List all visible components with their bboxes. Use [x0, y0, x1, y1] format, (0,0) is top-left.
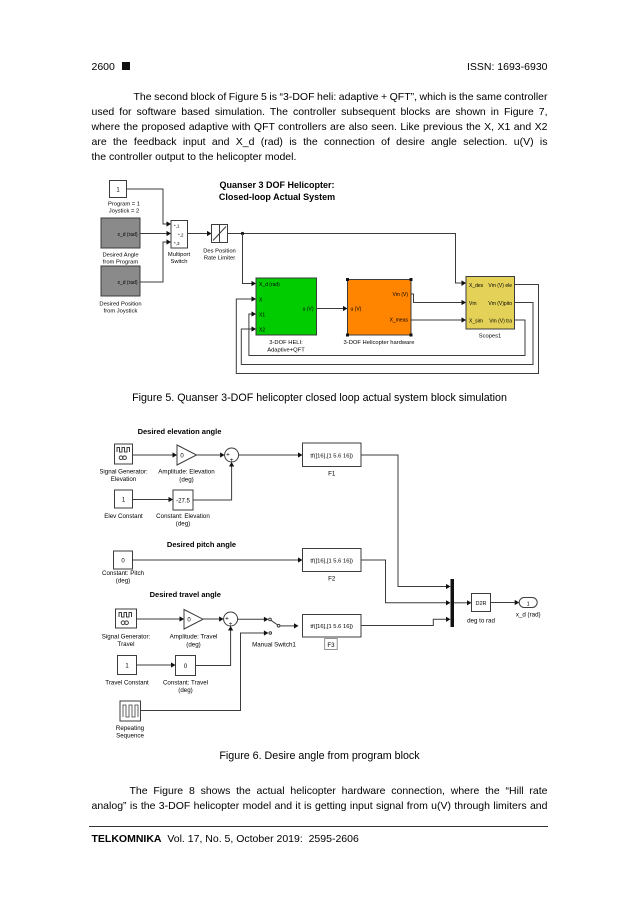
sum junction travel — [224, 612, 238, 628]
svg-text:deg to rad: deg to rad — [467, 618, 495, 625]
svg-text:3-DOF Helicopter hardware: 3-DOF Helicopter hardware — [344, 340, 415, 346]
sum junction elevation — [225, 448, 239, 464]
wire F3 to mux in3 — [361, 617, 451, 626]
svg-text:x_d (rad): x_d (rad) — [117, 232, 137, 238]
outport x_d (rad) — [516, 598, 541, 619]
svg-text:Vm (V)pito: Vm (V)pito — [488, 301, 512, 307]
svg-text:D2R: D2R — [475, 601, 486, 607]
svg-text:Vm: Vm — [469, 301, 477, 307]
wire travel constant to 0 — [137, 662, 176, 667]
gain D2R deg to rad — [467, 594, 495, 625]
feedback wire pito to X2 — [241, 303, 533, 365]
svg-text:Amplitude: Travel: Amplitude: Travel — [170, 634, 218, 641]
wire gray2 to multiport in3 — [140, 239, 171, 282]
svg-text:F2: F2 — [328, 576, 336, 583]
svg-text:(deg): (deg) — [179, 477, 193, 484]
figure 5: simulink diagram — [85, 170, 565, 395]
junction and branch wire to green x_d — [241, 232, 256, 286]
wire repeating sequence to switch lower — [141, 630, 269, 710]
svg-text:tf([16],[1 5.6 16]): tf([16],[1 5.6 16]) — [310, 624, 353, 630]
svg-text:F3: F3 — [327, 642, 335, 649]
footer — [92, 833, 359, 845]
svg-text:Signal Generator:: Signal Generator: — [102, 634, 151, 641]
svg-text:Elev Constant: Elev Constant — [104, 513, 143, 520]
svg-text:-27.5: -27.5 — [176, 499, 190, 505]
svg-text:Travel Constant: Travel Constant — [105, 680, 149, 687]
svg-text:Vm (V) ele: Vm (V) ele — [488, 283, 512, 289]
wire elev constant to -27.5 — [133, 497, 174, 502]
svg-text:X_d (rad): X_d (rad) — [259, 282, 280, 288]
subsystem 3-DOF HELI Adaptive+QFT — [256, 278, 317, 354]
svg-text:Constant: Travel: Constant: Travel — [163, 680, 208, 687]
footer rule — [89, 826, 549, 827]
svg-text:Sequence: Sequence — [116, 733, 144, 740]
svg-text:*,1: *,1 — [174, 224, 180, 229]
svg-text:Switch: Switch — [170, 259, 187, 265]
scope subsystem Scopes1 — [466, 277, 515, 340]
wire orange X_meas to scope X_sim — [411, 317, 466, 322]
wire constant1 to multiport in1 — [127, 189, 172, 227]
svg-text:Adaptive+QFT: Adaptive+QFT — [267, 348, 305, 354]
block Constant: Elevation -27.5 — [156, 490, 210, 528]
wire siggen elevation to gain — [133, 452, 178, 457]
svg-text:X_sim: X_sim — [469, 319, 483, 325]
svg-text:u (V): u (V) — [351, 307, 362, 313]
gain Amplitude: Travel — [170, 610, 218, 649]
svg-text:Des Position: Des Position — [203, 249, 236, 255]
wire multiport to rate limiter — [188, 231, 212, 236]
wire F2 to mux in2 — [361, 560, 451, 605]
paragraph 1 — [92, 90, 548, 165]
wire orange Vm to scope Vm — [411, 294, 466, 305]
svg-text:X1: X1 — [259, 313, 265, 319]
svg-text:*,3: *,3 — [174, 241, 180, 246]
svg-text:Vm (V) tra: Vm (V) tra — [489, 319, 512, 325]
svg-text:Travel: Travel — [118, 641, 135, 648]
svg-text:from Program: from Program — [103, 260, 139, 266]
svg-text:x_d (rad): x_d (rad) — [516, 612, 541, 619]
feedback wire tra to X1 — [249, 311, 525, 355]
svg-text:Vm (V): Vm (V) — [392, 292, 408, 298]
block Desired Angle from Program — [101, 218, 140, 266]
constant Travel Constant — [105, 656, 149, 687]
constant pitch 0 — [102, 551, 145, 585]
svg-text:Quanser 3 DOF Helicopter:: Quanser 3 DOF Helicopter: — [219, 180, 334, 190]
svg-text:X2: X2 — [259, 328, 265, 334]
svg-text:F1: F1 — [328, 471, 336, 478]
wire sum to switch upper — [238, 617, 269, 622]
subsystem 3-DOF Helicopter hardware — [344, 278, 415, 346]
svg-text:tf([16],[1 5.6 16]): tf([16],[1 5.6 16]) — [310, 559, 353, 565]
wire 0 up into sum travel — [196, 626, 234, 666]
wire F1 to mux in1 — [361, 455, 451, 589]
wire -27.5 up into sum — [193, 462, 234, 500]
svg-text:Constant: Elevation: Constant: Elevation — [156, 513, 210, 520]
wire rate limiter to scope X_des — [228, 234, 467, 287]
svg-text:Elevation: Elevation — [111, 476, 137, 483]
header — [92, 61, 548, 73]
svg-text:from Joystick: from Joystick — [104, 309, 138, 315]
svg-text:Repeating: Repeating — [116, 725, 145, 732]
svg-text:Desired travel angle: Desired travel angle — [150, 590, 221, 599]
wire gen travel to gain — [137, 616, 185, 621]
svg-text:Manual Switch1: Manual Switch1 — [252, 642, 296, 649]
svg-text:Rate Limiter: Rate Limiter — [204, 256, 235, 262]
block Constant: Travel 0 — [163, 656, 208, 695]
svg-text:Joystick = 2: Joystick = 2 — [109, 209, 139, 215]
svg-text:Desired Position: Desired Position — [99, 302, 141, 308]
svg-text:u (V): u (V) — [303, 307, 314, 313]
svg-text:Signal Generator:: Signal Generator: — [100, 469, 148, 476]
svg-text:(deg): (deg) — [186, 642, 200, 649]
svg-text:(deg): (deg) — [116, 578, 130, 585]
gain Amplitude: Elevation — [158, 445, 215, 484]
svg-text:X_des: X_des — [469, 283, 484, 289]
wire gray1 to multiport in2 — [140, 231, 171, 236]
paragraph 2 — [92, 784, 548, 814]
svg-text:Multiport: Multiport — [168, 252, 191, 258]
multiport switch — [168, 221, 191, 266]
transfer fcn F1 — [303, 443, 362, 478]
wire gain to sum — [197, 452, 225, 457]
signal generator travel — [102, 609, 151, 648]
wire mux to D2R — [454, 600, 472, 605]
block Desired Position from Joystick — [99, 266, 141, 315]
svg-text:3-DOF HELI:: 3-DOF HELI: — [269, 340, 303, 346]
wire gain to sum travel — [203, 616, 224, 621]
svg-text:Desired pitch angle: Desired pitch angle — [167, 540, 236, 549]
manual switch 1 — [252, 618, 298, 648]
svg-text:Closed-loop Actual System: Closed-loop Actual System — [219, 192, 335, 202]
repeating sequence — [116, 701, 145, 740]
mux — [451, 579, 455, 627]
figure 6 caption — [92, 750, 548, 762]
constant Elev Constant — [104, 490, 143, 520]
figure 6: simulink diagram — [100, 420, 560, 750]
svg-text:Program = 1: Program = 1 — [108, 202, 140, 208]
figure 5 caption — [92, 392, 548, 404]
svg-text:Amplitude: Elevation: Amplitude: Elevation — [158, 469, 215, 476]
feedback wire ele to X — [236, 285, 538, 374]
transfer fcn F3 — [303, 615, 362, 650]
wire sum to F1 — [239, 452, 303, 457]
svg-text:Desired elevation angle: Desired elevation angle — [138, 427, 222, 436]
svg-text:(deg): (deg) — [176, 521, 190, 528]
rate limiter block — [203, 225, 236, 262]
svg-text:Scopes1: Scopes1 — [479, 334, 502, 340]
transfer fcn F2 — [303, 549, 362, 583]
signal generator elevation — [99, 444, 148, 483]
svg-text:X_meas: X_meas — [390, 318, 409, 324]
wire green to orange u(V) — [317, 306, 348, 311]
svg-text:tf([16],[1 5.6 16]): tf([16],[1 5.6 16]) — [310, 453, 353, 459]
wire D2R to outport — [491, 600, 520, 605]
wire constant pitch to F2 — [133, 557, 303, 562]
svg-text:Desired Angle: Desired Angle — [102, 253, 138, 259]
constant block 1 (Program=1 Joystick=2) — [108, 181, 140, 215]
svg-text:(deg): (deg) — [178, 687, 192, 694]
diagram title — [219, 180, 335, 202]
svg-text:*,2: *,2 — [178, 233, 184, 238]
svg-text:x_d (rad): x_d (rad) — [117, 280, 137, 286]
svg-text:Constant: Pitch: Constant: Pitch — [102, 570, 145, 577]
svg-text:1: 1 — [527, 601, 530, 607]
